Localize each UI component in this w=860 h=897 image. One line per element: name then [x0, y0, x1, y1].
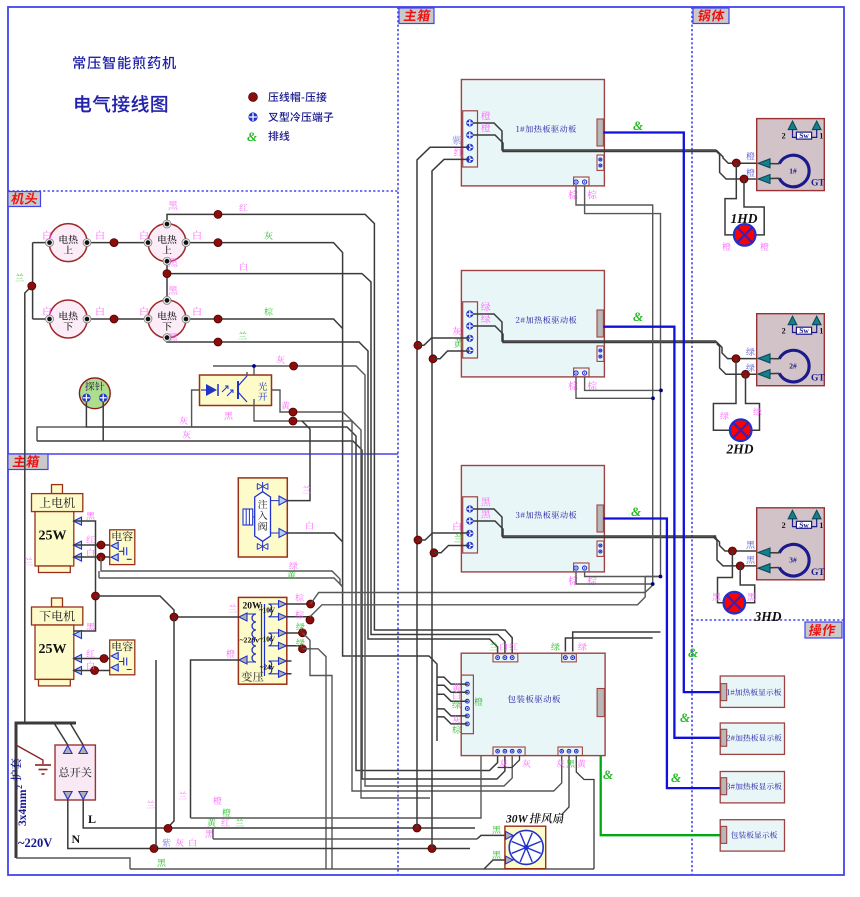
svg-text:N: N: [72, 832, 81, 846]
svg-text:~10V: ~10V: [259, 607, 276, 615]
svg-text:2: 2: [782, 327, 786, 336]
svg-text:2: 2: [15, 785, 24, 789]
svg-text:&: &: [247, 129, 257, 144]
svg-text:25W: 25W: [39, 642, 67, 657]
svg-text:~220V: ~220V: [18, 836, 52, 850]
svg-text:2HD: 2HD: [726, 442, 754, 457]
svg-text:3x4mm: 3x4mm: [17, 789, 29, 826]
svg-text:GT: GT: [811, 568, 825, 578]
svg-text:2: 2: [782, 132, 786, 141]
svg-text:1HD: 1HD: [731, 211, 758, 226]
svg-text:&: &: [631, 504, 641, 519]
svg-text:&: &: [603, 767, 613, 782]
svg-text:1: 1: [819, 327, 823, 336]
svg-text:Sw: Sw: [799, 520, 809, 529]
svg-text:Sw: Sw: [799, 131, 809, 140]
svg-text:1: 1: [819, 521, 823, 530]
svg-text:3#: 3#: [789, 556, 797, 565]
svg-text:3HD: 3HD: [754, 609, 782, 624]
svg-text:2#: 2#: [789, 362, 797, 371]
svg-text:&: &: [688, 645, 698, 660]
svg-text:&: &: [633, 118, 643, 133]
svg-text:~10V: ~10V: [259, 636, 276, 644]
svg-text:GT: GT: [811, 374, 825, 384]
svg-text:1: 1: [819, 132, 823, 141]
svg-text:&: &: [671, 770, 681, 785]
svg-text:25W: 25W: [39, 529, 67, 544]
svg-text:2: 2: [782, 521, 786, 530]
svg-text:&: &: [633, 309, 643, 324]
svg-text:GT: GT: [811, 179, 825, 189]
svg-text:30W: 30W: [505, 814, 529, 826]
svg-text:Sw: Sw: [799, 326, 809, 335]
svg-text:&: &: [680, 710, 690, 725]
svg-text:1#: 1#: [789, 167, 797, 176]
svg-text:~24v: ~24v: [260, 664, 275, 672]
svg-text:L: L: [88, 812, 96, 826]
svg-text:~220v: ~220v: [240, 636, 260, 645]
